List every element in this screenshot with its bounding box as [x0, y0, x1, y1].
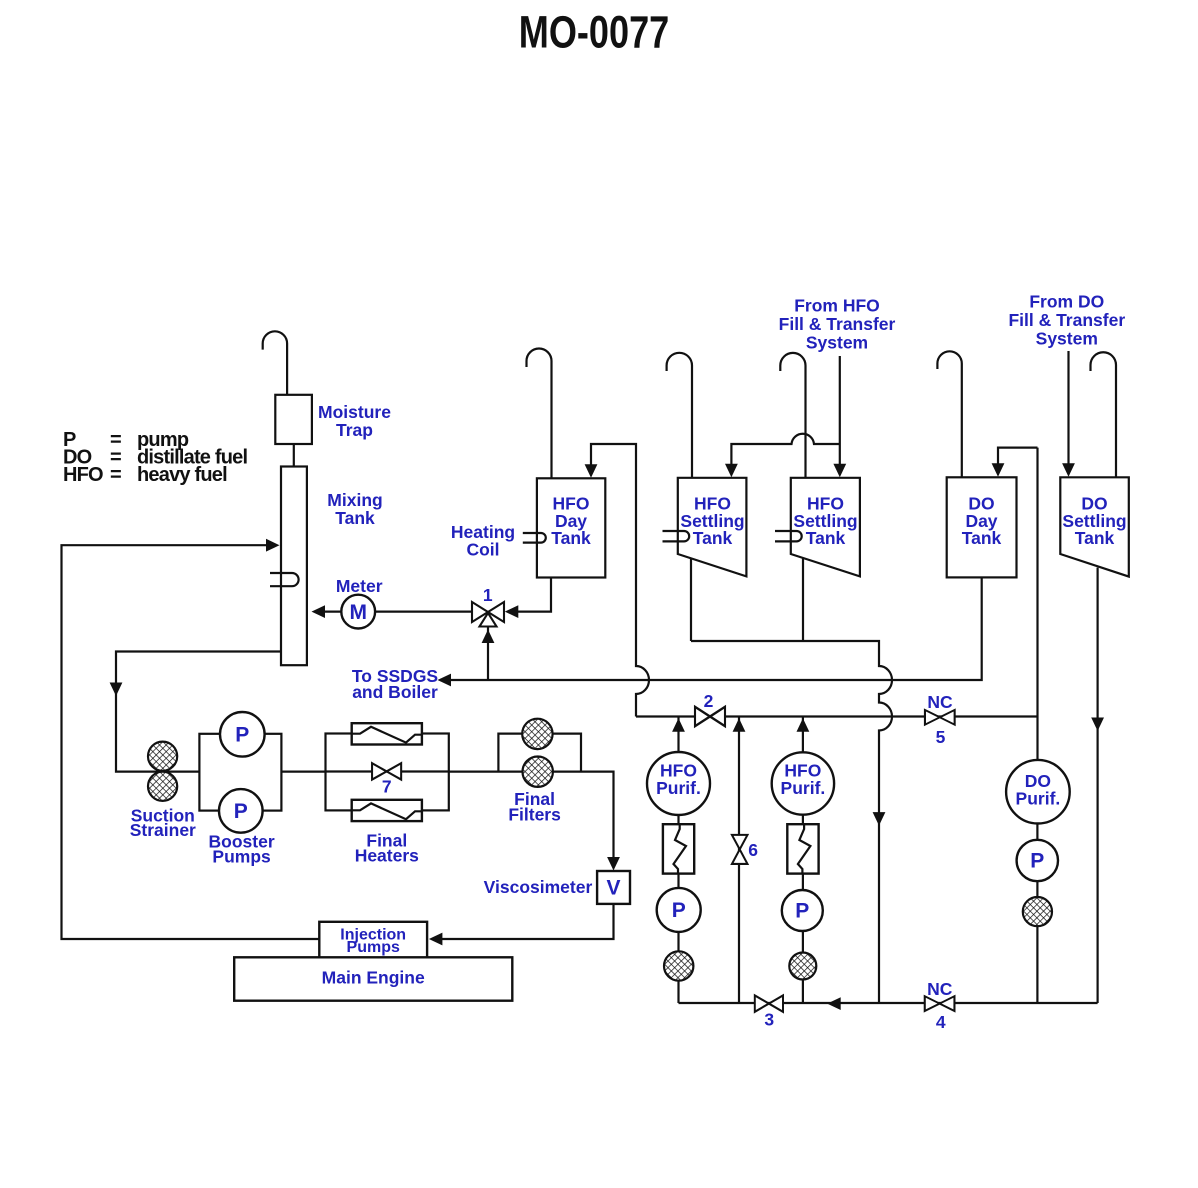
svg-text:Strainer: Strainer	[130, 820, 196, 840]
svg-text:Filters: Filters	[508, 804, 561, 824]
svg-text:Coil: Coil	[466, 540, 499, 560]
svg-text:1: 1	[483, 585, 493, 605]
svg-text:Purif.: Purif.	[781, 778, 826, 798]
svg-text:Tank: Tank	[551, 528, 591, 548]
svg-text:NC: NC	[927, 979, 953, 999]
svg-text:and Boiler: and Boiler	[352, 682, 438, 702]
svg-text:NC: NC	[927, 692, 953, 712]
svg-text:V: V	[606, 877, 620, 900]
svg-text:Tank: Tank	[335, 508, 375, 528]
svg-text:4: 4	[936, 1012, 946, 1032]
svg-text:MO-0077: MO-0077	[519, 7, 670, 58]
svg-text:Trap: Trap	[336, 420, 373, 440]
svg-text:Tank: Tank	[693, 528, 733, 548]
svg-text:Pumps: Pumps	[212, 846, 271, 866]
svg-text:3: 3	[764, 1010, 774, 1030]
svg-text:M: M	[349, 601, 367, 624]
svg-text:5: 5	[936, 727, 946, 747]
svg-text:From DO: From DO	[1029, 292, 1104, 312]
svg-text:7: 7	[382, 776, 392, 796]
svg-text:Pumps: Pumps	[347, 939, 400, 956]
svg-text:Tank: Tank	[962, 528, 1002, 548]
svg-text:P: P	[235, 724, 249, 747]
svg-text:Main Engine: Main Engine	[322, 967, 425, 987]
svg-text:Purif.: Purif.	[1016, 788, 1061, 808]
svg-text:Fill & Transfer: Fill & Transfer	[779, 314, 896, 334]
svg-text:System: System	[806, 333, 868, 353]
svg-text:Purif.: Purif.	[656, 778, 701, 798]
svg-text:Fill & Transfer: Fill & Transfer	[1008, 310, 1125, 330]
svg-text:6: 6	[748, 840, 758, 860]
svg-text:System: System	[1036, 329, 1098, 349]
svg-text:P: P	[672, 899, 686, 922]
svg-text:Meter: Meter	[336, 576, 383, 596]
svg-text:From HFO: From HFO	[794, 296, 880, 316]
svg-text:2: 2	[704, 691, 714, 711]
svg-text:=: =	[110, 464, 121, 486]
svg-text:Heaters: Heaters	[355, 846, 419, 866]
svg-text:Tank: Tank	[1075, 528, 1115, 548]
svg-text:P: P	[795, 900, 809, 923]
svg-text:heavy fuel: heavy fuel	[137, 464, 227, 486]
svg-text:P: P	[1030, 850, 1044, 873]
svg-text:Viscosimeter: Viscosimeter	[484, 877, 593, 897]
svg-text:P: P	[234, 800, 248, 823]
svg-text:HFO: HFO	[63, 464, 103, 486]
svg-text:Tank: Tank	[806, 528, 846, 548]
